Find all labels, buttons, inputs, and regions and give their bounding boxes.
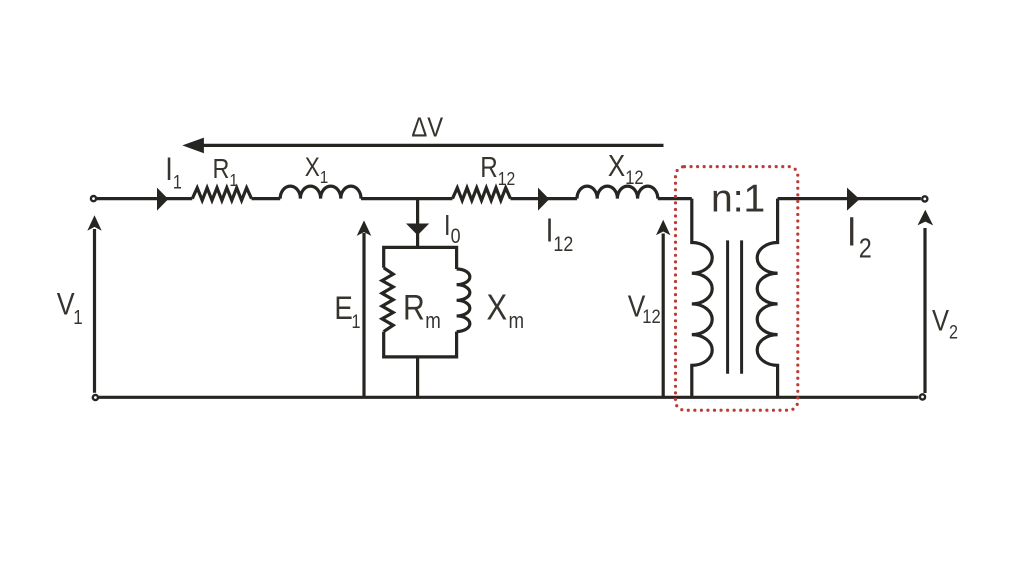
arrowhead I0 pointing down <box>406 224 429 236</box>
svg-text:n:1: n:1 <box>711 178 765 221</box>
transformer core line 1 <box>726 240 729 373</box>
svg-text:R12: R12 <box>480 151 515 189</box>
svg-text:R1: R1 <box>213 154 238 190</box>
wire: V12 voltage arrow line <box>662 234 665 398</box>
svg-text:ΔV: ΔV <box>411 110 443 142</box>
inductor Xm (on right side of box) <box>457 269 470 332</box>
wire: top main wire from input terminal to R1 <box>97 197 193 200</box>
svg-text:X12: X12 <box>608 148 644 188</box>
arrowhead V12 up <box>656 220 670 236</box>
node: bottom-right output terminal <box>920 394 925 399</box>
wire: bottom rail <box>99 396 919 399</box>
svg-text:Rm: Rm <box>403 287 441 333</box>
svg-text:I0: I0 <box>444 209 461 248</box>
ideal transformer boundary (red dotted box) <box>676 167 798 411</box>
transformer core line 2 <box>740 240 743 373</box>
inductor X1 <box>280 186 361 199</box>
svg-text:Xm: Xm <box>487 287 525 333</box>
arrowhead E1 up <box>357 220 372 236</box>
transformer primary winding <box>692 199 712 398</box>
wire: R12 to X12 <box>511 197 578 200</box>
wire: E1 voltage arrow line <box>362 233 365 397</box>
wire: box bottom stem to bottom rail <box>416 357 419 397</box>
wire: V1 voltage arrow line on the left <box>93 229 96 393</box>
arrowhead of delta-V pointing left <box>182 138 204 154</box>
wire: between R1 and X1 <box>252 197 281 200</box>
wire: V2 voltage arrow line on the right <box>923 228 926 393</box>
node: top-left input terminal <box>91 196 96 201</box>
resistor R1 <box>192 188 251 201</box>
svg-text:I1: I1 <box>165 152 182 193</box>
wire: X1 to shunt junction to R12 <box>361 197 453 200</box>
magnetizing branch box (parallel Rm / Xm) <box>384 247 457 269</box>
svg-text:I12: I12 <box>546 212 574 256</box>
svg-text:I2: I2 <box>847 210 872 264</box>
wire: junction stem down to magnetizing branch box <box>416 199 419 248</box>
svg-text:E1: E1 <box>334 291 360 332</box>
arrowhead V2 up <box>918 210 934 226</box>
resistor R12 <box>453 188 511 201</box>
svg-text:X1: X1 <box>305 154 329 188</box>
svg-text:V2: V2 <box>932 304 958 343</box>
node: bottom-left input terminal <box>93 395 98 400</box>
resistor Rm (on left side of box) <box>382 268 393 332</box>
arrowhead V1 up <box>87 215 101 231</box>
inductor X12 <box>577 186 658 199</box>
wire: secondary top wire to output terminal <box>778 197 921 200</box>
wire: X12 to transformer primary <box>658 197 692 200</box>
node: top-right output terminal <box>922 196 927 201</box>
svg-text:V12: V12 <box>628 289 661 327</box>
transformer secondary winding <box>757 199 777 398</box>
arrowhead I1 current direction <box>157 188 168 211</box>
arrowhead I12 current direction <box>538 188 549 211</box>
svg-text:V1: V1 <box>57 287 83 328</box>
wire: delta-V feedback line <box>196 144 664 147</box>
arrowhead I2 current direction <box>847 188 860 211</box>
